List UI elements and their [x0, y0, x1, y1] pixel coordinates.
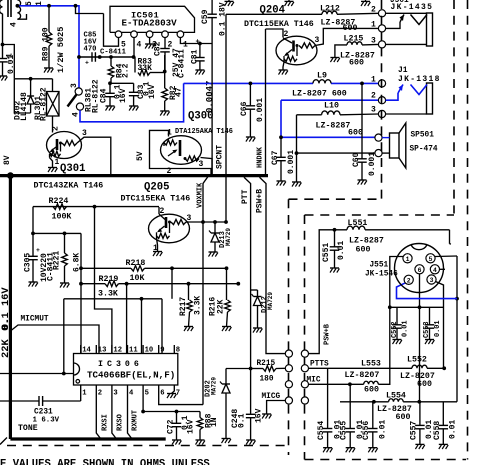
svg-text:+: + [36, 247, 40, 254]
label JK-1318 [398, 75, 441, 84]
svg-text:3: 3 [371, 106, 376, 115]
node blue-transformer [16, 4, 20, 8]
wire J551 pin3 drop [436, 282, 444, 369]
label RXSI [102, 414, 110, 431]
wire Q205 collector net [188, 221, 227, 223]
svg-text:SP-474: SP-474 [410, 146, 438, 154]
pin J1-3 [378, 110, 385, 117]
svg-text:25V 47: 25V 47 [172, 48, 181, 77]
jack J1 V notch blue [411, 85, 428, 95]
label DTC115EKA T146 (Q204) [244, 20, 314, 29]
wire SP pins [382, 138, 389, 154]
label RL381 [85, 88, 94, 112]
ground (Q301) [48, 168, 57, 173]
label C66 [240, 101, 249, 116]
wire pin4 stub RXMUT [128, 385, 132, 439]
svg-text:1: 1 [55, 158, 60, 167]
svg-text:2: 2 [371, 92, 376, 101]
wire pin5 net [143, 385, 200, 412]
label PTTS [310, 361, 329, 369]
label LZ-8287 (L554) [377, 405, 412, 414]
svg-text:J1: J1 [398, 66, 408, 75]
wire rail233 [33, 232, 81, 234]
wire pin2 stub RXSI [96, 385, 100, 439]
label RL-8122 (contact) [92, 79, 101, 113]
label C248 [231, 409, 240, 428]
svg-text:HNDNK: HNDNK [257, 146, 265, 168]
wire y307 net [390, 306, 444, 308]
svg-text:600: 600 [356, 246, 371, 255]
svg-text:3: 3 [430, 277, 434, 284]
capacitor C66 [246, 83, 256, 137]
label C72 [167, 419, 176, 434]
node blue-C66 [249, 82, 253, 86]
svg-text:1: 1 [371, 21, 376, 30]
svg-text:DTA125AKA T146: DTA125AKA T146 [175, 128, 233, 136]
wire pin4 drop [133, 38, 135, 58]
wire MICMUT [10, 325, 99, 354]
svg-text:3: 3 [113, 390, 117, 398]
wire transformer left leg [2, 15, 4, 58]
node pin5 [141, 410, 145, 414]
wire L554 net [340, 401, 457, 403]
transformer pin label 4 [10, 22, 19, 27]
label 1N (R88) [210, 417, 219, 427]
label JK-1546 [365, 271, 398, 279]
wire L10 net [297, 113, 379, 116]
label 10K [130, 274, 145, 283]
svg-text:600: 600 [364, 386, 379, 395]
label 0.001 (C60) [368, 152, 377, 176]
svg-text:0.0047: 0.0047 [205, 81, 215, 113]
capacitor C? 0.01 (top-left) [0, 57, 7, 76]
label 6.8K [73, 253, 82, 272]
svg-text:L215: L215 [344, 35, 364, 44]
svg-text:VOXMIK: VOXMIK [197, 182, 205, 208]
pin J551-5 [426, 254, 435, 263]
svg-text:RXMUT: RXMUT [132, 410, 140, 431]
resistor R88 [197, 412, 203, 441]
svg-text:10: 10 [145, 347, 154, 355]
label 0.1 (C248) [238, 413, 247, 428]
label C557 [410, 421, 419, 440]
svg-text:MICMUT: MICMUT [21, 316, 49, 324]
label 0.01 [7, 55, 16, 74]
svg-text:C81: C81 [191, 49, 200, 64]
capacitor C83 [129, 83, 139, 106]
svg-text:C72: C72 [167, 419, 176, 434]
svg-text:600: 600 [349, 59, 364, 68]
svg-text:Q301: Q301 [60, 163, 85, 175]
label 1 (Q301) [55, 158, 60, 167]
label J551 [370, 262, 389, 270]
svg-text:4: 4 [129, 390, 134, 398]
svg-text:Q300: Q300 [188, 111, 213, 123]
jack J501 V notch [411, 15, 428, 25]
svg-text:MA729: MA729 [267, 292, 274, 310]
wire pin2 drop [164, 38, 166, 49]
label LZ-8207 (L552) [400, 372, 435, 381]
label C82 [154, 41, 163, 56]
ground (top near C59) [225, 0, 234, 6]
label LZ-8287 (L212) [321, 19, 356, 28]
label 1/2W 5025 [56, 27, 66, 73]
resistor R217 [187, 284, 193, 327]
svg-text:R217: R217 [179, 297, 188, 316]
svg-text:PTT: PTT [241, 189, 250, 204]
ground (C556) [368, 448, 377, 453]
capacitor C554 [323, 368, 333, 447]
node MIC-L554 [348, 382, 352, 386]
pin SP-b [375, 150, 382, 157]
capacitor C557 [415, 402, 425, 445]
svg-text:C558: C558 [433, 421, 442, 440]
speaker SP501 body [390, 123, 406, 168]
wire IC306 top pin stubs [81, 345, 175, 354]
svg-text:L551: L551 [348, 219, 368, 228]
wire x162 drop [161, 299, 163, 354]
ground (top above Q204) [285, 0, 294, 6]
svg-text:LZ-8207: LZ-8207 [345, 371, 380, 380]
label Q301 [60, 163, 85, 175]
node D202-PTT [249, 367, 253, 371]
svg-text:MA729: MA729 [225, 228, 232, 246]
ground (C81) [195, 70, 204, 75]
wire Q204 base [266, 29, 284, 38]
svg-text:13: 13 [98, 347, 107, 355]
label 2.2 [122, 63, 131, 78]
label R83 33K [138, 58, 153, 74]
pin SP-a [375, 134, 382, 141]
node R83-R82 [163, 70, 167, 74]
svg-text:C556: C556 [362, 421, 371, 440]
svg-text:3: 3 [371, 37, 376, 46]
capacitor C553 [425, 307, 435, 339]
svg-text:2: 2 [160, 207, 165, 216]
label RXMUT [132, 410, 140, 431]
note text bottom [0, 459, 210, 465]
svg-text:22K: 22K [217, 299, 226, 314]
wire blue L9 net [184, 82, 378, 84]
transformer T301 primary coil [0, 0, 3, 15]
resistor R84 [108, 57, 114, 83]
ground (speaker return) [292, 182, 301, 187]
svg-text:0.01: 0.01 [434, 320, 442, 337]
resistor R215 net [251, 366, 286, 372]
wire x81 drop [80, 233, 82, 353]
wire x141 drop [141, 299, 143, 354]
svg-text:C552: C552 [391, 321, 399, 338]
capacitor C67 [276, 137, 286, 181]
node rail233-R221 [63, 232, 67, 236]
svg-text:DTC143ZKA T146: DTC143ZKA T146 [34, 182, 104, 191]
wire Q205 emitter [157, 238, 158, 252]
wire J501 pin3-body [386, 43, 427, 45]
label HNDNK [257, 146, 265, 168]
wire rail207 left drop [32, 207, 34, 234]
wire net x212 [211, 44, 213, 175]
label LZ-8287 (L551) [349, 237, 384, 246]
svg-text:47: 47 [175, 87, 184, 97]
svg-text:2: 2 [284, 30, 289, 39]
label C83 [137, 84, 146, 99]
svg-text:22K: 22K [0, 339, 12, 358]
wire x64 drop [63, 299, 65, 374]
label E-TDA2803V [122, 18, 178, 29]
transistor Q301 body [47, 132, 82, 159]
capacitor C72 [172, 412, 182, 441]
wire Q204 emitter [283, 62, 284, 70]
capacitor C558 [439, 402, 449, 445]
dashed edge x288 [288, 199, 290, 455]
svg-text:R218: R218 [126, 259, 146, 268]
wire IC306 pin14-side feed [0, 373, 74, 375]
label 0.01 (C552) [402, 320, 410, 337]
relay contact lever [68, 95, 77, 107]
label R82 [169, 85, 178, 100]
wire relay coil top [52, 79, 54, 92]
node blue C85 rail tap [77, 55, 81, 59]
wire IC501 pin5 feed [76, 6, 119, 46]
wire J551 pin5 stub [435, 255, 457, 258]
label pin1 [183, 41, 188, 50]
label 4 (contact) [72, 112, 81, 117]
label DTC115EKA T146 (Q205) [121, 195, 191, 204]
label C556 [362, 421, 371, 440]
svg-text:4: 4 [72, 112, 81, 117]
capacitor C248 [246, 369, 256, 441]
pin column right (board B) [301, 350, 308, 404]
label 2 (Q300) [167, 167, 172, 176]
dashed edge y445 [7, 445, 289, 447]
node rail233-C305 [31, 232, 35, 236]
node R218-R216 [225, 266, 229, 270]
label 600 (L551) [356, 246, 371, 255]
label C555 [340, 421, 349, 440]
wire blue SP net [281, 100, 381, 137]
node PTTS-pin3 [442, 366, 446, 370]
label 0.01 (C558) [449, 420, 458, 439]
svg-text:TONE: TONE [18, 424, 38, 433]
node rail207-x94 [93, 205, 97, 209]
label C552 [391, 321, 399, 338]
pin J551-1 [403, 254, 412, 263]
label 3 (contact) [70, 83, 79, 88]
svg-text:R89 100: R89 100 [42, 27, 51, 61]
svg-text:16V: 16V [119, 88, 128, 103]
wire relay rail [14, 78, 52, 80]
svg-text:L212: L212 [320, 5, 340, 14]
label 2 (J1) [371, 92, 376, 101]
svg-text:PSW+B: PSW+B [324, 323, 332, 345]
svg-text:R221: R221 [53, 251, 62, 270]
svg-text:RXSI: RXSI [102, 414, 110, 431]
svg-text:11: 11 [129, 347, 138, 355]
resistor R224 [53, 204, 67, 210]
op-amp IC501 body [110, 6, 195, 32]
svg-text:2: 2 [98, 390, 102, 398]
label 3 (Q204) [315, 36, 320, 45]
label pin3 [152, 41, 157, 50]
relay contact circle 3 [75, 88, 82, 95]
ground (C555) [346, 448, 355, 453]
wire pin3 stub RXSO [112, 385, 116, 439]
svg-text:E-TDA2803V: E-TDA2803V [122, 18, 178, 29]
label 3 (J501) [371, 37, 376, 46]
ground (R82) [160, 111, 169, 116]
pin IC501-1 [177, 31, 184, 38]
label C554 [317, 421, 326, 440]
svg-text:C67: C67 [271, 150, 280, 165]
wire MICG [267, 401, 286, 415]
ground (C558) [439, 444, 448, 449]
label 0.01 (C554) [334, 420, 343, 439]
svg-text:IC306: IC306 [98, 360, 143, 369]
label MA729 (D213) [225, 228, 232, 246]
wire pin1 drop [180, 38, 212, 44]
transistor Q300 internals [164, 140, 199, 161]
wire L212 net [226, 13, 379, 14]
svg-text:MICG: MICG [262, 393, 281, 401]
label TC4066BF(EL,N,F) [87, 369, 175, 380]
node speaker return [295, 151, 299, 155]
label DTA125AKA T146 [175, 128, 233, 136]
wire net SPCNT x226 [225, 14, 227, 222]
svg-text:RXSO: RXSO [117, 414, 125, 431]
label 3.3K (R217) [194, 296, 203, 315]
label C81 [191, 49, 200, 64]
ground (R217) [184, 327, 193, 332]
ground (R88) [196, 440, 205, 445]
inductor L554 [389, 399, 404, 402]
wire J551 pin6 drop [419, 274, 421, 402]
svg-text:PSW+B: PSW+B [256, 189, 265, 213]
label C-8411 (C81) [178, 49, 187, 78]
svg-text:+: + [85, 60, 89, 67]
wire Q204 base drop HNDNK [265, 29, 267, 175]
label 3 (Q301) [82, 129, 87, 138]
node C67 tap [279, 135, 283, 139]
label 0.01 (C555) [356, 420, 365, 439]
label LZ-8287 (L215) [340, 52, 375, 61]
label 22K (left edge) [0, 339, 12, 358]
label R224 [49, 197, 69, 206]
wire Q301 emitter [50, 158, 53, 168]
label MIC [307, 377, 321, 385]
svg-text:3.3K: 3.3K [194, 296, 203, 315]
label R218 [126, 259, 146, 268]
node y299-x141 [140, 297, 144, 301]
label pin4 [137, 41, 142, 50]
ground (R89) [44, 68, 53, 73]
svg-text:0.: 0. [0, 318, 12, 330]
node y307-a [388, 305, 392, 309]
node rail-pin4 [132, 55, 136, 59]
wire D202 net [226, 369, 251, 385]
node rail-C85b [98, 55, 102, 59]
label JK-1435 [391, 3, 434, 12]
svg-text:6: 6 [160, 390, 164, 398]
node relay rail diode tap [29, 77, 33, 81]
inductor L10 [322, 111, 340, 115]
label 16V (C83) [148, 84, 157, 99]
pin IC501-3 [146, 31, 153, 38]
label 600 (L212) [343, 24, 358, 33]
label 10V220 [40, 253, 49, 282]
label 0.1 16V (left edge) [0, 287, 12, 331]
label L215 [344, 35, 364, 44]
wire to relay rail [3, 45, 15, 79]
label 3 (Q300) [199, 160, 204, 169]
label 0. (left edge) [0, 318, 12, 330]
svg-text:C82: C82 [154, 41, 163, 56]
jack J1 tip arrow blue [386, 85, 403, 101]
dashed edge y214 [305, 214, 455, 216]
jack J1 body [427, 83, 433, 114]
label SP-474 [410, 146, 438, 154]
svg-text:0.1: 0.1 [238, 413, 247, 428]
wire IC306 pin1 stub [80, 385, 82, 401]
resistor R221 [62, 233, 68, 283]
label RXSO [117, 414, 125, 431]
label D213 [219, 231, 227, 248]
capacitor C555 [345, 384, 355, 447]
label L553 [361, 360, 381, 369]
pin J501-3 [378, 41, 385, 48]
wire R89 stem [48, 6, 50, 68]
label 600 (L215) [349, 59, 364, 68]
ground (C66) [246, 137, 255, 142]
svg-text:1: 1 [406, 256, 410, 263]
capacitor C85 electrolytic [85, 52, 95, 66]
transistor Q301 internals [50, 139, 78, 158]
label 16V (C248) [255, 408, 264, 423]
svg-text:J551: J551 [370, 262, 389, 270]
svg-text:L552: L552 [407, 356, 427, 365]
pin IC501-2 [162, 31, 169, 38]
wire pin6 net [159, 385, 203, 405]
svg-text:2.2: 2.2 [122, 63, 131, 78]
svg-text:+: + [196, 39, 200, 47]
node C551 tap [333, 228, 337, 232]
ground (R221) [60, 283, 69, 288]
label D302 [14, 101, 23, 120]
svg-text:4: 4 [137, 41, 142, 50]
label LL4148 [20, 92, 29, 121]
label C85 16V 470 [84, 32, 98, 54]
ground (C67) [277, 181, 286, 186]
label LZ-8287 (L10) [316, 122, 351, 131]
label R89 100 [42, 27, 51, 61]
wire PTTS net [309, 367, 445, 369]
svg-text:3: 3 [187, 214, 192, 223]
label 2 (Q204) [284, 30, 289, 39]
ground (top-left cap) [0, 76, 7, 81]
svg-text:12: 12 [113, 347, 122, 355]
node x81-R219 [79, 282, 83, 286]
label R84 [116, 63, 125, 78]
node D213 tap [213, 220, 217, 224]
label 1 6.3V [33, 417, 60, 425]
label 1 (J1) [371, 76, 376, 85]
node L554-a [372, 400, 376, 404]
inductor L215 [347, 42, 362, 45]
label pin2 [168, 41, 173, 50]
svg-text:C305: C305 [24, 253, 33, 272]
wire Q300 emitter loop [150, 130, 212, 174]
label 0.1 (C83) [143, 81, 152, 96]
jack J501 tip arrow [386, 15, 404, 29]
